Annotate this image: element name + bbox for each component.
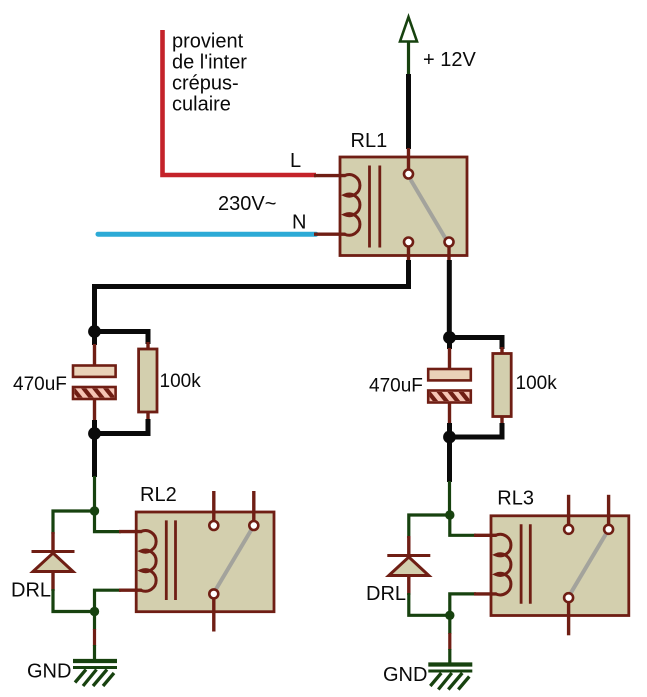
relay RL2 coil (141, 531, 156, 592)
wire: cap bottom to junction right (447, 423, 452, 437)
relay RL3 coil lead top (474, 534, 497, 537)
node: RL2 coil top (green) (90, 506, 99, 515)
relay RL3 switch (571, 533, 607, 593)
diode DRL left cathode bar (32, 550, 75, 553)
svg-text:470uF: 470uF (13, 374, 67, 395)
relay RL2 pin lead NO top (252, 491, 255, 521)
capacitor 470uF right plate bottom (hatched) (425, 388, 481, 403)
wire: RL3 coil bottom to lower node (450, 594, 476, 615)
relay RL1 pin lead NC (407, 247, 410, 262)
resistor 100k left body (139, 349, 157, 412)
wire: diode bottom to lower node right (409, 593, 450, 615)
capacitor 470uF right lead bottom (448, 403, 451, 425)
node: RL3 coil bottom (green) (445, 611, 454, 620)
resistor 100k right lead top (500, 347, 503, 355)
capacitor 470uF right plate top (428, 369, 471, 380)
svg-text:100k: 100k (516, 373, 558, 394)
resistor 100k right body (493, 354, 511, 417)
relay RL1 pin NO (445, 238, 454, 247)
svg-text:RL1: RL1 (351, 130, 388, 152)
capacitor 470uF left lead top (92, 332, 97, 346)
wire N blue neutral (98, 232, 316, 237)
relay RL3 pin common (564, 593, 573, 602)
svg-text:de l'inter: de l'inter (172, 52, 247, 74)
wire: +12V to RL1 (406, 74, 411, 149)
diode DRL right cathode bar (387, 554, 430, 557)
relay RL2 pin lead common bottom (212, 599, 215, 632)
wire: cap bottom to junction (92, 420, 97, 434)
node: left cap/res bottom junction (88, 427, 101, 440)
svg-text:provient: provient (172, 31, 244, 53)
relay RL1 pin lead common (407, 148, 410, 170)
relay RL3 pin lead NO top (607, 495, 610, 525)
relay RL2 pin NC (209, 521, 218, 530)
capacitor 470uF right lead top (447, 338, 452, 350)
wire: node to diode D1 cathode (53, 511, 95, 534)
relay RL3 body (491, 516, 629, 616)
svg-text:230V~: 230V~ (218, 193, 276, 215)
wire: right junction down (447, 437, 452, 482)
node: right cap/res bottom junction (443, 431, 456, 444)
svg-text:N: N (292, 212, 306, 234)
wire: junction to resistor R1 top (95, 332, 149, 345)
node: RL3 coil top (green) (445, 510, 454, 519)
diode DRL left lead top (51, 532, 54, 551)
relay RL2 switch (216, 530, 252, 590)
capacitor 470uF left plate top (73, 366, 116, 377)
wire: node to RL2 coil top lead (95, 511, 122, 532)
wire: junction to resistor R2 top (450, 338, 503, 350)
relay RL1 coil lead L (314, 174, 346, 177)
relay RL3 pin NC (564, 525, 573, 534)
relay RL1 pin common (404, 170, 413, 179)
relay RL2 core (166, 520, 175, 600)
svg-text:470uF: 470uF (369, 376, 423, 397)
wire: RL1 NC to left branch (95, 260, 409, 334)
wire: node to RL3 coil top lead (450, 515, 476, 535)
svg-text:L: L (290, 150, 301, 172)
capacitor 470uF left lead bottom (93, 399, 96, 421)
relay RL2 pin common (209, 589, 218, 598)
resistor 100k left lead bottom (146, 412, 149, 421)
relay RL1 pin NC (404, 238, 413, 247)
wire: lower node to GND right (448, 615, 451, 664)
ground right (428, 665, 472, 690)
resistor 100k right lead bottom (500, 417, 503, 426)
node: RL2 coil bottom (green) (90, 607, 99, 616)
wire L red phase (163, 30, 317, 175)
svg-text:GND: GND (27, 661, 71, 683)
svg-text:RL2: RL2 (140, 484, 177, 506)
wire: resistor R2 bottom to junction (450, 423, 503, 437)
relay RL1 coil lead N (314, 232, 346, 235)
relay RL1 coil (345, 175, 360, 236)
relay RL2 coil lead bottom (119, 589, 142, 592)
svg-text:100k: 100k (160, 371, 202, 392)
wire: lower node to GND left (93, 612, 96, 662)
svg-text:DRL: DRL (11, 580, 51, 602)
relay RL1 switch (411, 180, 446, 239)
wire: RL2 coil bottom to lower node (95, 590, 122, 611)
power symbol +12V arrow (400, 17, 417, 75)
wire: green to RL2 coil node (93, 476, 96, 511)
label: provient de l'inter crepusculaire (172, 31, 247, 116)
relay RL3 pin lead common bottom (567, 602, 570, 635)
wire: resistor R1 bottom to junction (95, 419, 149, 434)
relay RL2 pin NO (249, 521, 258, 530)
wire: diode bottom to lower node (53, 589, 95, 612)
wire: RL1 NO down right branch (447, 260, 452, 340)
ground left (73, 661, 117, 686)
svg-text:DRL: DRL (366, 583, 406, 605)
node: right cap/res top junction (443, 331, 456, 344)
svg-text:RL3: RL3 (497, 488, 534, 510)
relay RL2 coil lead top (119, 530, 142, 533)
relay RL2 body (136, 512, 274, 612)
svg-text:GND: GND (383, 664, 427, 686)
capacitor 470uF left plate bottom (hatched) (70, 385, 126, 400)
wire: green to RL3 coil node (448, 481, 451, 515)
diode DRL right lead top (407, 536, 410, 555)
relay RL3 coil (496, 534, 511, 595)
relay RL2 pin lead NC top (212, 491, 215, 521)
diode DRL right triangle (389, 557, 429, 576)
resistor 100k left lead top (146, 342, 149, 350)
wire: left junction down (92, 434, 97, 478)
diode DRL left triangle (33, 553, 73, 572)
wire: node to diode D2 cathode (409, 515, 450, 538)
diode DRL right lead bottom (407, 576, 410, 596)
svg-text:culaire: culaire (172, 94, 231, 116)
diode DRL left lead bottom (51, 572, 54, 592)
relay RL1 pin lead NO (447, 247, 450, 262)
relay RL1 core (370, 166, 380, 248)
svg-text:+ 12V: + 12V (423, 49, 476, 71)
relay RL3 core (521, 524, 530, 604)
svg-text:crépus-: crépus- (172, 73, 239, 95)
relay RL3 coil lead bottom (474, 592, 497, 595)
relay RL1 body (340, 157, 467, 256)
node: left cap/res top junction (88, 325, 101, 338)
relay RL3 pin NO (604, 525, 613, 534)
relay RL3 pin lead NC top (567, 495, 570, 525)
